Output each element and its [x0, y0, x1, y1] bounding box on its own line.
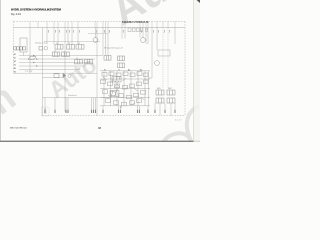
svg-text:T1: T1 [118, 69, 120, 71]
svg-text:12: 12 [56, 43, 58, 45]
svg-text:B4: B4 [140, 69, 142, 71]
dashed drop wires right [163, 28, 168, 89]
motor M1 [155, 61, 160, 66]
valve V5 [62, 52, 70, 56]
valve V2 [67, 45, 75, 50]
wire W-B2 [19, 65, 85, 67]
cluster valves row A [102, 72, 148, 77]
cluster diagonal arrows [103, 77, 145, 105]
filter F1 [158, 50, 170, 56]
wire W-A1 [19, 55, 103, 57]
drop wires from bus [30, 28, 175, 116]
valve V7 [85, 60, 93, 64]
svg-text:13: 13 [68, 43, 70, 45]
svg-text:16: 16 [76, 58, 78, 60]
cluster valves row D [106, 99, 142, 106]
svg-text:15: 15 [54, 50, 56, 52]
wire W-B3 [14, 72, 98, 74]
cluster labels [104, 68, 142, 109]
tank outlet wire [23, 52, 25, 56]
svg-text:MXU 500 IRS 4x4: MXU 500 IRS 4x4 [10, 128, 27, 130]
solenoid S1 [39, 47, 43, 51]
wire W-top [88, 33, 108, 35]
svg-text:4.2 - 17: 4.2 - 17 [175, 120, 181, 122]
pump P1 [93, 38, 98, 43]
wire W-A2 [19, 62, 90, 64]
gauge G1 [68, 74, 71, 77]
wire W6 [149, 77, 153, 79]
watermark (decorative) [0, 0, 209, 162]
svg-text:A4: A4 [128, 68, 130, 71]
svg-text:B2: B2 [14, 65, 16, 67]
pump symbol PS1 [28, 57, 36, 60]
pump P2 [141, 38, 146, 43]
wire W-B1 [19, 58, 95, 60]
drain connectors [45, 110, 175, 113]
wire W5 (return line) [43, 97, 111, 99]
wire W-A3 [19, 69, 80, 71]
svg-text:DV2: DV2 [168, 88, 172, 90]
valve V1 [55, 45, 63, 50]
cluster hatched box [110, 77, 121, 97]
valve V4 [53, 52, 60, 56]
svg-text:Schlauch 4.2: Schlauch 4.2 [35, 43, 47, 45]
svg-text:Fig. 4.2/1: Fig. 4.2/1 [11, 13, 22, 16]
svg-text:P1: P1 [104, 69, 106, 71]
port tags A1..A6 [14, 53, 16, 74]
riser wires to drain rail [45, 98, 175, 116]
labels above relief valves [157, 88, 172, 90]
svg-text:A3: A3 [14, 67, 16, 70]
cluster valves row C [103, 90, 146, 99]
svg-text:A1: A1 [14, 53, 16, 56]
wire W4 [43, 77, 66, 79]
cluster gauge circle [115, 85, 119, 89]
breather marks [44, 109, 47, 113]
tank T1 [20, 38, 27, 52]
svg-text:B1: B1 [14, 58, 16, 60]
enclosure boundary top (dashed) [14, 21, 186, 23]
enclosure boundary bottom (dashed) [42, 115, 185, 117]
top tick wires between boundary and bus [30, 22, 175, 28]
valve V12 [167, 98, 175, 103]
valve V8 [104, 56, 111, 61]
gauge G2 [44, 46, 48, 50]
svg-text:Ruecklauf: Ruecklauf [68, 95, 77, 97]
drop tick labels [48, 30, 170, 33]
valve V9 [118, 56, 125, 61]
svg-text:98: 98 [98, 126, 102, 130]
svg-text:T2: T2 [120, 107, 122, 109]
svg-text:P 21 T 22: P 21 T 22 [25, 71, 32, 73]
bus B1 (top manifold) [14, 27, 186, 29]
valve V6 [75, 60, 83, 64]
enclosure boundary right (dashed) [184, 22, 186, 116]
manifold cluster M (dense valve block) [100, 71, 150, 106]
svg-text:HYDR. SYSTEM / HYDRAULIKSYSTEM: HYDR. SYSTEM / HYDRAULIKSYSTEM [11, 7, 62, 11]
valve V10 [118, 63, 125, 68]
relief valve RV2 [167, 90, 175, 95]
cluster valves row B [101, 80, 149, 89]
inline check symbols on wires [33, 55, 38, 67]
valve row labels [54, 43, 80, 60]
svg-text:Schlauchleitung 4-21: Schlauchleitung 4-21 [104, 47, 124, 50]
terminal strip TS1 [14, 47, 26, 50]
wire W-row (valve supply header) [44, 41, 100, 43]
valve V3 [76, 45, 84, 50]
svg-text:A2: A2 [14, 60, 16, 63]
connector blocks on bus [128, 28, 148, 32]
svg-text:DV1: DV1 [157, 88, 161, 90]
relief valve RV1 [156, 90, 164, 95]
valve V11 [156, 98, 164, 103]
svg-text:14: 14 [78, 43, 80, 45]
breather box BX1 (dashed) [42, 107, 50, 116]
enclosure boundary left (dashed) [13, 22, 15, 74]
svg-text:SCHEMA HYDRAULIK: SCHEMA HYDRAULIK [122, 21, 149, 24]
check valve CV1 [54, 74, 66, 78]
page edges (decorative) [0, 0, 2, 142]
